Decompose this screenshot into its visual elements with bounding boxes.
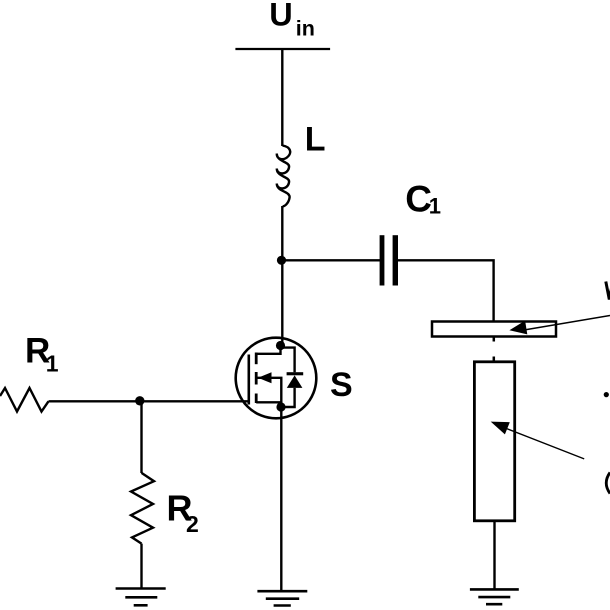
wire R1 to gate (through node) bbox=[49, 400, 249, 402]
svg-text:in: in bbox=[296, 16, 315, 40]
inductor L bbox=[277, 146, 290, 207]
partial label dot (right edge) bbox=[604, 392, 609, 397]
resistor R2 bbox=[131, 473, 154, 544]
ground (left, below R2) bbox=[116, 589, 166, 606]
MOSFET channel segments bbox=[255, 353, 258, 404]
node junction R1/R2/gate bbox=[135, 396, 144, 405]
drain junction dot bbox=[276, 341, 285, 350]
electrode plate (horizontal rectangle) bbox=[432, 322, 556, 337]
wire inductor to drain (through node) bbox=[281, 206, 283, 346]
wire U_in bar to inductor L bbox=[281, 49, 283, 146]
capacitor C1 bbox=[380, 235, 398, 285]
resistor R1 bbox=[0, 388, 49, 412]
label C1 bbox=[405, 178, 441, 219]
annotation arrow to electrode plate bbox=[509, 316, 610, 335]
svg-text:2: 2 bbox=[186, 511, 199, 537]
wire node to R2 bbox=[140, 401, 142, 473]
supply rail bar U_in bbox=[235, 48, 330, 50]
MOSFET body circle bbox=[236, 338, 317, 419]
source junction dot bbox=[276, 402, 285, 411]
MOSFET drain connection bbox=[256, 346, 281, 354]
svg-text:1: 1 bbox=[46, 350, 59, 376]
wire source to ground bbox=[280, 407, 282, 590]
wire crystal to ground bbox=[493, 521, 495, 589]
annotation arrow to crystal bbox=[491, 422, 585, 459]
label U_in bbox=[269, 0, 315, 40]
MOSFET body arrow (substrate) bbox=[257, 372, 281, 407]
ground (center, below MOSFET source) bbox=[257, 591, 307, 605]
MOSFET source connection bbox=[256, 401, 281, 403]
svg-text:U: U bbox=[269, 0, 292, 32]
node junction drain/C1 bbox=[277, 256, 286, 265]
wire R2 to ground bbox=[140, 544, 142, 588]
svg-text:L: L bbox=[305, 121, 326, 159]
stub below electrode plate bbox=[493, 337, 496, 342]
svg-text:S: S bbox=[330, 366, 353, 404]
label R2 bbox=[167, 488, 199, 537]
stub above crystal bbox=[493, 357, 496, 362]
svg-text:1: 1 bbox=[429, 193, 441, 218]
MOSFET gate bar bbox=[248, 355, 251, 405]
body diode bbox=[281, 348, 304, 407]
ground (right, below crystal) bbox=[470, 589, 519, 604]
wire node to C1 left plate bbox=[282, 259, 381, 261]
label S bbox=[330, 366, 353, 404]
crystal resonator (vertical rectangle) bbox=[474, 362, 514, 521]
wire C1 right plate to electrode plate bbox=[398, 260, 494, 321]
partial label V (clipped at right edge) bbox=[606, 282, 610, 300]
label L bbox=[305, 121, 326, 159]
partial label parenthesis (right edge) bbox=[606, 473, 610, 494]
label R1 bbox=[25, 332, 59, 377]
